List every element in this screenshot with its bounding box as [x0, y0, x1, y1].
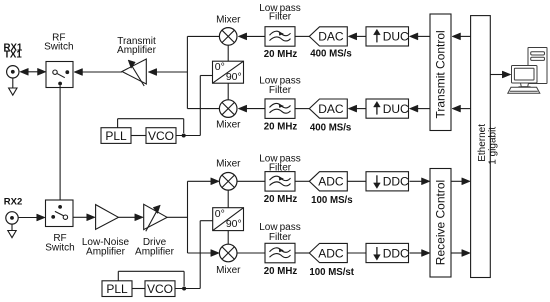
svg-text:90°: 90°	[226, 71, 242, 83]
svg-text:Mixer: Mixer	[216, 265, 241, 276]
svg-text:ADC: ADC	[318, 175, 344, 189]
svg-text:Filter: Filter	[269, 232, 292, 243]
svg-text:Receive Control: Receive Control	[433, 180, 447, 265]
svg-text:400 MS/s: 400 MS/s	[310, 49, 351, 60]
svg-text:Filter: Filter	[269, 85, 292, 96]
svg-text:Amplifier: Amplifier	[135, 247, 175, 258]
svg-text:400 MS/s: 400 MS/s	[310, 123, 351, 134]
svg-text:DAC: DAC	[318, 102, 344, 116]
svg-text:VCO: VCO	[147, 282, 173, 296]
svg-text:Mixer: Mixer	[216, 119, 241, 130]
svg-text:100 MS/s: 100 MS/s	[311, 195, 352, 206]
svg-text:Amplifier: Amplifier	[86, 247, 126, 258]
svg-text:20 MHz: 20 MHz	[264, 122, 298, 133]
svg-text:DDC: DDC	[383, 246, 409, 260]
svg-text:0°: 0°	[215, 208, 225, 220]
svg-text:1 gigabit: 1 gigabit	[488, 127, 499, 165]
svg-text:TX1: TX1	[4, 50, 22, 61]
svg-text:Transmit Control: Transmit Control	[433, 30, 447, 118]
svg-text:Switch: Switch	[45, 243, 74, 254]
svg-text:Mixer: Mixer	[216, 159, 241, 170]
svg-text:PLL: PLL	[106, 282, 128, 296]
svg-text:20 MHz: 20 MHz	[264, 49, 298, 60]
svg-text:RX2: RX2	[4, 197, 22, 208]
svg-text:Amplifier: Amplifier	[117, 45, 157, 56]
svg-text:20 MHz: 20 MHz	[264, 266, 298, 277]
svg-text:Ethernet: Ethernet	[477, 124, 488, 162]
svg-text:DAC: DAC	[318, 30, 344, 44]
svg-text:DUC: DUC	[383, 30, 409, 44]
svg-text:Filter: Filter	[269, 12, 292, 23]
svg-text:100 MS/st: 100 MS/st	[309, 267, 354, 278]
svg-text:0°: 0°	[215, 61, 225, 73]
svg-text:ADC: ADC	[318, 246, 344, 260]
svg-text:20 MHz: 20 MHz	[264, 194, 298, 205]
svg-text:Filter: Filter	[269, 163, 292, 174]
svg-text:Mixer: Mixer	[216, 14, 241, 25]
svg-text:VCO: VCO	[148, 129, 174, 143]
svg-text:DDC: DDC	[383, 175, 409, 189]
svg-text:PLL: PLL	[105, 129, 127, 143]
svg-text:Switch: Switch	[44, 41, 73, 52]
svg-text:DUC: DUC	[383, 102, 409, 116]
svg-text:90°: 90°	[226, 218, 242, 230]
